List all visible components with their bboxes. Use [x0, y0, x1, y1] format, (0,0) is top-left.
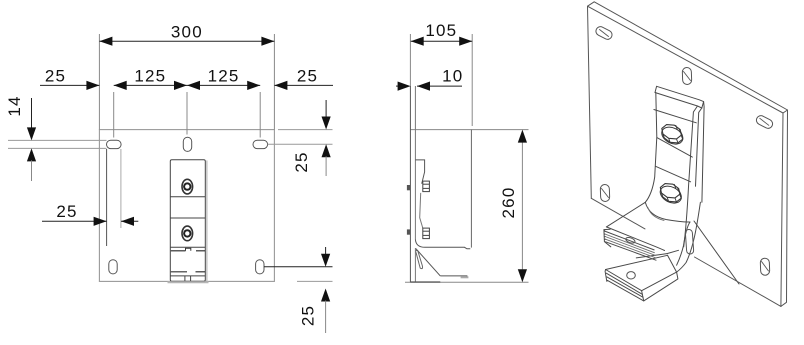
svg-text:125: 125 — [208, 67, 240, 86]
iso column cap front edge — [655, 93, 702, 109]
dim 10 — [396, 82, 462, 91]
dim 300 — [99, 34, 274, 130]
rail bottom — [440, 276, 467, 278]
slot bottom-right — [256, 260, 264, 274]
iso gusset cutout — [685, 229, 694, 254]
gusset diagonal — [416, 249, 441, 276]
dim 14 vertical left — [8, 98, 107, 181]
bolt side head 2 — [423, 228, 430, 239]
iso foot right band — [642, 272, 678, 301]
iso gusset lower edge — [677, 202, 701, 272]
svg-text:300: 300 — [171, 23, 203, 42]
dim 25 slot width — [42, 149, 138, 246]
dim 25 right top — [268, 100, 333, 176]
iso column side band mid edge — [696, 108, 702, 186]
iso slot top-left — [594, 25, 613, 41]
iso column side band outer edge — [702, 102, 704, 203]
iso column rules — [657, 138, 692, 158]
shelf top — [415, 240, 470, 249]
iso rail bottom edge — [606, 242, 656, 260]
iso slot top-middle — [682, 67, 692, 84]
plate front outline — [99, 130, 274, 282]
iso foot front band — [606, 270, 644, 301]
iso rail bar top edge — [605, 231, 654, 250]
iso foot channel inner — [668, 255, 677, 272]
iso bend column to shelf — [645, 202, 690, 222]
iso bolt 2 — [657, 183, 684, 207]
column body — [170, 160, 207, 282]
top edge line — [411, 129, 529, 131]
svg-text:10: 10 — [442, 67, 463, 86]
bolt side tip 1 — [407, 185, 410, 190]
iso rail serration lines — [605, 234, 655, 258]
iso plate front face — [588, 6, 784, 306]
iso foot hole — [627, 272, 636, 279]
dim 25 right bottom — [264, 247, 333, 333]
iso column front right edge — [684, 106, 698, 247]
dim 260 — [518, 130, 527, 283]
svg-text:105: 105 — [425, 21, 457, 40]
slot top-right — [253, 140, 268, 148]
iso rail end face — [604, 229, 611, 247]
iso foot left end face — [605, 270, 607, 282]
svg-text:25: 25 — [299, 305, 318, 326]
iso rail slot hole — [625, 236, 636, 244]
svg-text:25: 25 — [292, 151, 311, 172]
gusset cutout slot — [416, 250, 423, 268]
bolt side tip 2 — [407, 229, 410, 234]
column clamp dashes row1 — [171, 248, 205, 251]
iso gusset hypotenuse — [694, 221, 739, 284]
slot bottom-left — [109, 260, 117, 274]
wall plate edge-on — [470, 130, 472, 248]
iso column cap joint rule — [654, 110, 696, 123]
iso slot bottom-right — [760, 258, 770, 275]
iso column top cap band — [655, 86, 704, 108]
iso column front face left edge — [645, 93, 657, 203]
svg-text:25: 25 — [297, 67, 318, 86]
iso foot top face — [606, 255, 677, 290]
column bottom gray bar — [168, 281, 209, 283]
bracket front wall — [409, 86, 411, 282]
iso channel mouth — [636, 254, 667, 258]
svg-text:260: 260 — [499, 187, 518, 219]
slot top-middle — [183, 137, 191, 151]
column clamp dashes row2 — [171, 271, 205, 273]
iso plate top band — [588, 2, 788, 113]
svg-text:25: 25 — [56, 202, 77, 221]
wall top notch — [415, 160, 424, 184]
plate bottom edge visible segments — [591, 198, 781, 306]
iso plate right band — [781, 110, 788, 306]
iso channel right wall — [677, 222, 690, 265]
bolt front 1 — [182, 179, 193, 194]
bolt front 2 — [182, 226, 193, 241]
iso shelf left edge — [606, 202, 645, 227]
iso bolt 1 — [659, 124, 686, 148]
svg-text:25: 25 — [45, 67, 66, 86]
dim row2: 25 / 125 / 125 / 25 — [40, 81, 333, 138]
svg-text:125: 125 — [134, 67, 166, 86]
iso slot bottom-left — [600, 184, 610, 201]
iso shelf front edge — [606, 227, 664, 251]
iso slot top-right — [755, 114, 774, 130]
inner clamp edge — [420, 193, 423, 228]
svg-text:14: 14 — [5, 95, 24, 116]
column bottom cell dividers — [185, 276, 191, 281]
bolt side head 1 — [423, 181, 430, 192]
bottom edge line — [405, 281, 529, 283]
slot top-left — [107, 140, 122, 148]
dim 105 — [410, 34, 472, 126]
